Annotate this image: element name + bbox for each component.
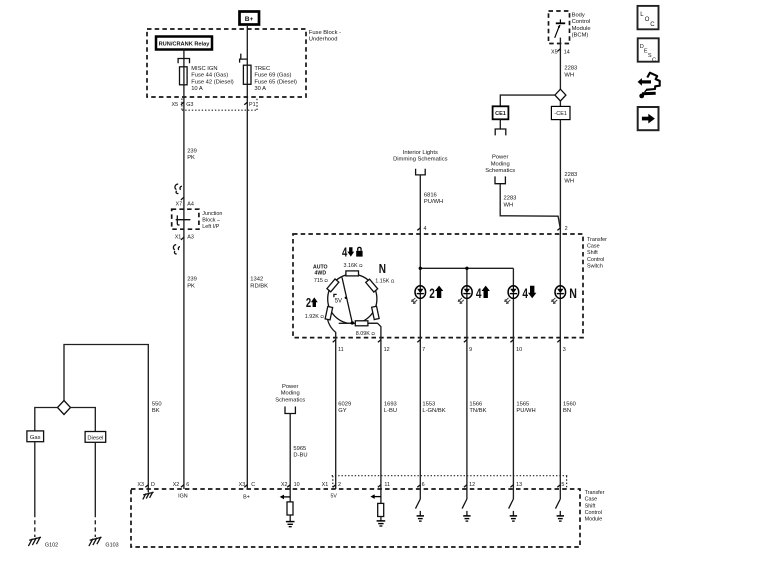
X1 pin 12 xyxy=(464,482,475,488)
wire 239 PK lower label xyxy=(187,277,197,290)
svg-text:2: 2 xyxy=(565,226,568,232)
wire bcm output down to diamond xyxy=(559,38,561,90)
svg-text:(BCM): (BCM) xyxy=(572,32,589,38)
wire diamond to CE1 xyxy=(500,95,555,106)
svg-text:2283: 2283 xyxy=(564,66,577,72)
resistor 715 upper-left xyxy=(327,279,339,292)
LOC icon box xyxy=(638,6,659,29)
svg-text:CE1: CE1 xyxy=(495,111,506,117)
transfer case shift control module dashed box xyxy=(131,489,580,547)
power moding schematics source (left) xyxy=(275,384,305,403)
X1 pin 2 xyxy=(333,482,341,488)
svg-text:1342: 1342 xyxy=(250,277,263,283)
indicator LED 4-down xyxy=(505,286,519,304)
svg-text:C: C xyxy=(251,482,255,488)
svg-text:B+: B+ xyxy=(243,494,250,500)
connector X5 pin G3 of fuse block xyxy=(172,102,194,108)
label lamp 2-up xyxy=(429,286,443,302)
body control module label xyxy=(572,13,591,39)
wire 550 BK ground run from module pin X3-D xyxy=(64,345,148,490)
navigation arrows icon xyxy=(638,73,660,99)
wire Diesel to ground xyxy=(94,442,96,513)
svg-text:3: 3 xyxy=(563,347,566,353)
junction dot bus lamp1 xyxy=(419,267,422,270)
rotary bottom chord wire xyxy=(339,322,377,324)
resistor 1.92K lower-left xyxy=(325,307,333,320)
wire 6816 PU/WH label xyxy=(424,193,443,206)
wire 1553 L-GN/BK label xyxy=(422,401,445,414)
X1 pin 5 xyxy=(557,482,564,488)
fuse F44 MISC IGN xyxy=(180,66,234,92)
svg-text:X1: X1 xyxy=(175,234,182,240)
wiper 5V feed symbol xyxy=(334,294,347,304)
svg-text:4: 4 xyxy=(476,286,482,302)
wire diamond to Gas branch xyxy=(35,408,58,431)
svg-text:TN/BK: TN/BK xyxy=(469,408,486,414)
fuse block underhood dashed box xyxy=(147,29,306,97)
wire lamp 2 to module pin 12 xyxy=(466,268,468,489)
ground splice diamond xyxy=(58,401,71,415)
label 2-up position xyxy=(306,297,318,311)
svg-text:5: 5 xyxy=(561,482,564,488)
in-line connector hooks above X7 xyxy=(175,184,182,194)
wire MISC IGN fuse to pin G3 and down to junction block xyxy=(183,85,185,489)
wire 2283 WH lower label xyxy=(564,172,577,185)
svg-text:Transfer: Transfer xyxy=(585,490,605,496)
svg-text:Module: Module xyxy=(585,517,603,523)
svg-text:Body: Body xyxy=(572,13,585,19)
DESC icon box xyxy=(638,38,659,63)
svg-text:WH: WH xyxy=(504,202,514,208)
svg-text:G102: G102 xyxy=(45,542,58,548)
wire power moding feed to pin 2 xyxy=(500,184,560,230)
fuse block underhood label xyxy=(309,30,341,43)
wire battery feed TREC fuse to pin P1 and down to module pin X3-C xyxy=(246,84,248,489)
connective -CE1 box xyxy=(551,106,570,119)
transfer case shift control module label xyxy=(585,490,605,523)
svg-text:2: 2 xyxy=(429,286,435,302)
svg-text:L-GN/BK: L-GN/BK xyxy=(422,408,445,414)
fuse clip symbol left xyxy=(178,59,189,64)
svg-text:Shift: Shift xyxy=(587,250,598,256)
pin 11 of switch xyxy=(333,340,344,353)
svg-text:BK: BK xyxy=(152,408,160,414)
wire 550 BK label xyxy=(152,401,162,414)
wire relay to MISC IGN fuse xyxy=(183,50,185,67)
svg-text:RUN/CRANK Relay: RUN/CRANK Relay xyxy=(159,42,211,48)
connective CE1 box xyxy=(493,106,509,119)
svg-text:2: 2 xyxy=(306,297,311,311)
source bracket xyxy=(495,176,505,183)
module pin X3-C xyxy=(239,482,256,488)
svg-text:X3: X3 xyxy=(137,482,144,488)
wire B+ feed to fuse block xyxy=(246,25,248,65)
svg-text:X2: X2 xyxy=(281,482,288,488)
wire -CE1 down to switch pin 2 xyxy=(559,120,561,234)
svg-text:7: 7 xyxy=(422,347,425,353)
svg-text:N: N xyxy=(379,262,386,277)
pin 7 of switch xyxy=(417,340,425,353)
resistor 1.15K upper-right xyxy=(366,279,378,292)
svg-text:Junction: Junction xyxy=(202,211,222,217)
indicator LED 2-up xyxy=(412,286,426,304)
svg-text:TREC: TREC xyxy=(254,66,270,72)
module pin X2-10 xyxy=(281,482,300,488)
pin 2 of switch xyxy=(557,226,567,232)
wire lamp 3 to module pin 13 xyxy=(512,268,514,489)
svg-text:A4: A4 xyxy=(187,201,194,207)
svg-text:9: 9 xyxy=(469,347,472,353)
svg-text:Underhood: Underhood xyxy=(309,37,338,43)
wire switch wiper output to pin 11 xyxy=(328,320,336,489)
junction diamond splice xyxy=(555,89,566,101)
svg-text:2: 2 xyxy=(338,482,341,488)
forward arrow icon box xyxy=(638,107,659,130)
svg-text:C: C xyxy=(650,22,655,28)
svg-text:30 A: 30 A xyxy=(254,86,266,92)
wire 239 PK upper label xyxy=(187,148,197,161)
svg-text:X1: X1 xyxy=(322,482,329,488)
svg-text:D: D xyxy=(151,482,155,488)
pin 9 of switch xyxy=(464,340,472,353)
svg-text:4: 4 xyxy=(522,286,528,302)
off-page staple symbol xyxy=(495,129,506,135)
svg-text:10: 10 xyxy=(294,482,300,488)
power moding schematics source (right) xyxy=(485,155,515,174)
svg-text:PK: PK xyxy=(187,283,195,289)
svg-text:Case: Case xyxy=(587,244,600,250)
svg-text:6: 6 xyxy=(422,482,425,488)
wire 2283 WH branch label xyxy=(504,196,517,209)
module pin X3-D xyxy=(137,482,155,488)
label lamp 4-up xyxy=(476,286,490,302)
svg-text:4: 4 xyxy=(342,246,348,260)
pin tick 14 xyxy=(557,49,560,52)
node X1 pin A3 junction block xyxy=(175,234,194,240)
svg-text:Case: Case xyxy=(585,497,598,503)
X1 pin 13 xyxy=(510,482,522,488)
ground G103 xyxy=(89,537,119,549)
wire Gas ground dashed xyxy=(34,513,36,537)
interior lights dimming schematics source xyxy=(393,150,448,163)
svg-text:Moding: Moding xyxy=(491,161,510,167)
module internal switch to ground at pin 6 xyxy=(416,489,425,521)
svg-text:1566: 1566 xyxy=(469,401,482,407)
svg-text:D-BU: D-BU xyxy=(293,453,307,459)
svg-text:B+: B+ xyxy=(245,16,254,23)
wire 2283 WH upper label xyxy=(564,66,577,79)
svg-text:Fuse 42 (Diesel): Fuse 42 (Diesel) xyxy=(191,79,234,85)
wire 1693 L-BU label xyxy=(384,401,397,414)
resistor 3.16K top xyxy=(346,271,359,276)
svg-text:239: 239 xyxy=(187,277,197,283)
fuse clip symbol right xyxy=(240,54,248,63)
svg-text:L-BU: L-BU xyxy=(384,408,397,414)
module internal chassis ground at pin D xyxy=(143,489,154,499)
svg-text:Control: Control xyxy=(572,19,591,25)
wire Diesel ground dashed xyxy=(94,513,96,537)
label N position xyxy=(379,262,386,277)
svg-text:IGN: IGN xyxy=(178,493,188,499)
junction block label xyxy=(202,211,222,230)
power feed B+ box xyxy=(240,12,260,25)
connector X1 dotted outline xyxy=(332,476,569,489)
svg-text:PK: PK xyxy=(187,155,195,161)
label AUTO 4WD position xyxy=(313,264,328,276)
pin 3 of switch xyxy=(557,340,566,353)
X1 pin 6 xyxy=(417,482,424,488)
svg-text:Gas: Gas xyxy=(30,435,41,441)
wire diamond to Diesel branch xyxy=(71,408,96,432)
svg-text:X5: X5 xyxy=(551,49,558,55)
rotary switch body circle xyxy=(328,274,377,323)
bcm internal driver symbol xyxy=(555,19,566,37)
indicator LED N xyxy=(552,286,566,304)
source bracket xyxy=(416,169,426,175)
svg-text:4WD: 4WD xyxy=(315,270,327,276)
svg-text:MISC IGN: MISC IGN xyxy=(191,66,217,72)
svg-text:WH: WH xyxy=(564,179,574,185)
wire diamond to -CE1 box xyxy=(559,101,561,106)
junction block internal connector symbol xyxy=(176,215,191,225)
svg-text:11: 11 xyxy=(338,347,344,353)
pin tick A4 xyxy=(181,197,184,200)
relay RUN/CRANK box xyxy=(156,37,212,50)
svg-text:GY: GY xyxy=(338,408,347,414)
body control module dashed box xyxy=(549,11,570,44)
svg-text:PU/WH: PU/WH xyxy=(516,408,535,414)
label lamp N xyxy=(569,286,577,302)
svg-text:WH: WH xyxy=(564,72,574,78)
pin tick P1 xyxy=(244,102,247,105)
wire Gas to ground xyxy=(34,442,36,513)
svg-text:13: 13 xyxy=(516,482,522,488)
label lamp 4-down xyxy=(522,286,536,302)
Diesel box xyxy=(85,432,106,443)
svg-text:Module: Module xyxy=(572,26,591,32)
svg-text:Power: Power xyxy=(492,155,509,161)
svg-text:Fuse Block -: Fuse Block - xyxy=(309,30,341,36)
svg-text:6: 6 xyxy=(186,482,189,488)
switch wiper arm xyxy=(342,277,352,323)
Gas box xyxy=(27,431,44,442)
svg-text:Schematics: Schematics xyxy=(485,168,515,174)
wire 1560 BN label xyxy=(563,401,576,414)
svg-text:2283: 2283 xyxy=(504,196,517,202)
svg-text:Fuse 69 (Gas): Fuse 69 (Gas) xyxy=(254,73,291,79)
svg-text:Schematics: Schematics xyxy=(275,397,305,403)
svg-text:Control: Control xyxy=(585,510,602,516)
junction block dashed box xyxy=(172,209,199,229)
X1 pin 11 xyxy=(378,482,390,488)
wire lamp feed pin 4 through lamps to module pin 6 xyxy=(419,234,421,489)
module pin X2-6 xyxy=(173,482,190,488)
wire dimming feed down to switch pin 4 xyxy=(419,175,421,234)
svg-text:2283: 2283 xyxy=(564,172,577,178)
svg-text:Shift: Shift xyxy=(585,503,596,509)
svg-text:A3: A3 xyxy=(187,234,194,240)
svg-text:Control: Control xyxy=(587,257,604,263)
wire lamp bus xyxy=(420,267,513,269)
svg-text:1565: 1565 xyxy=(516,401,529,407)
svg-text:Fuse 65 (Diesel): Fuse 65 (Diesel) xyxy=(254,79,297,85)
svg-text:P1: P1 xyxy=(249,102,256,108)
pin 10 of switch xyxy=(510,340,522,353)
fuse block connector dotted outline xyxy=(182,99,257,111)
svg-text:Fuse 44 (Gas): Fuse 44 (Gas) xyxy=(191,73,228,79)
in-line connector hooks below A3 xyxy=(173,245,180,254)
svg-text:X7: X7 xyxy=(176,201,183,207)
module internal switch to ground at pin 12 xyxy=(462,489,471,521)
svg-text:5965: 5965 xyxy=(293,446,306,452)
svg-text:Transfer: Transfer xyxy=(587,237,607,243)
svg-text:550: 550 xyxy=(152,401,162,407)
svg-text:5V: 5V xyxy=(335,299,342,305)
svg-text:1553: 1553 xyxy=(422,401,435,407)
svg-text:Switch: Switch xyxy=(587,264,603,270)
wire 6029 GY label xyxy=(338,401,351,414)
wire 5965 D-BU to module pin X2-10 xyxy=(289,414,291,490)
svg-text:11: 11 xyxy=(384,482,390,488)
svg-text:X2: X2 xyxy=(173,482,180,488)
svg-text:RD/BK: RD/BK xyxy=(250,283,268,289)
pin 4 of switch xyxy=(417,226,426,232)
module internal switch to ground at pin 13 xyxy=(509,489,517,521)
svg-text:1693: 1693 xyxy=(384,401,397,407)
svg-text:5V: 5V xyxy=(331,494,338,500)
svg-text:Diesel: Diesel xyxy=(87,435,103,441)
wire 1565 PU/WH label xyxy=(516,401,535,414)
resistor lower-right xyxy=(372,306,380,319)
svg-text:12: 12 xyxy=(384,347,390,353)
wire switch resistor output to pin 12 xyxy=(369,323,381,489)
svg-text:6816: 6816 xyxy=(424,193,437,199)
svg-text:Dimming Schematics: Dimming Schematics xyxy=(393,157,448,163)
pin tick A3 xyxy=(181,237,184,240)
ground G102 xyxy=(28,537,58,549)
svg-text:10: 10 xyxy=(516,347,522,353)
svg-text:Block –: Block – xyxy=(202,218,220,224)
pin 12 of switch xyxy=(378,340,390,353)
wire 1566 TN/BK label xyxy=(469,401,486,414)
svg-text:4: 4 xyxy=(424,226,427,232)
module internal switch to ground at pin 5 xyxy=(556,489,565,521)
wire 1342 RD/BK label xyxy=(250,277,268,290)
node X7 pin A4 junction block xyxy=(176,201,194,207)
label 4-down-lock position xyxy=(342,246,363,260)
svg-text:6029: 6029 xyxy=(338,401,351,407)
svg-text:G3: G3 xyxy=(186,102,193,108)
svg-text:BN: BN xyxy=(563,408,571,414)
svg-text:Moding: Moding xyxy=(281,391,300,397)
svg-text:14: 14 xyxy=(564,49,570,55)
module internal pull-up at pin 10 xyxy=(280,489,295,527)
svg-text:Interior Lights: Interior Lights xyxy=(403,150,438,156)
transfer case shift control switch label xyxy=(587,237,607,270)
connector X5 pin 14 of bcm xyxy=(551,49,570,55)
wire 5965 D-BU label xyxy=(293,446,307,459)
wire CE1 to off-page staple xyxy=(499,119,501,129)
svg-text:10 A: 10 A xyxy=(191,86,203,92)
transfer case shift control switch dashed box xyxy=(293,234,583,338)
svg-text:G103: G103 xyxy=(105,542,118,548)
svg-text:X5: X5 xyxy=(172,102,179,108)
resistor 8.09K bottom xyxy=(355,321,368,326)
svg-text:Left I/P: Left I/P xyxy=(202,224,219,230)
svg-text:C: C xyxy=(652,57,656,63)
source bracket xyxy=(285,407,295,414)
svg-text:Power: Power xyxy=(282,384,299,390)
indicator LED 4-up xyxy=(458,286,472,304)
svg-text:1560: 1560 xyxy=(563,401,576,407)
pin tick G3 xyxy=(181,102,184,105)
svg-text:239: 239 xyxy=(187,148,197,154)
wire N lamp column to module pin 5 xyxy=(559,234,561,489)
svg-text:12: 12 xyxy=(469,482,475,488)
junction dot bus lamp2 xyxy=(465,267,468,270)
svg-text:PU/WH: PU/WH xyxy=(424,199,443,205)
svg-text:-CE1: -CE1 xyxy=(554,111,567,117)
module internal pull-up at pin 11 xyxy=(370,489,385,526)
svg-text:N: N xyxy=(569,286,577,302)
fuse F69 TREC xyxy=(243,65,297,92)
svg-text:O: O xyxy=(645,17,650,23)
wiper junction dot xyxy=(351,321,354,324)
